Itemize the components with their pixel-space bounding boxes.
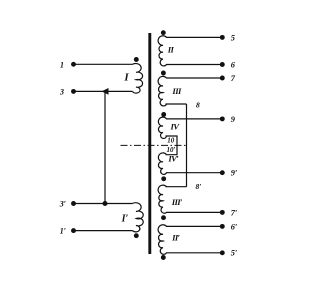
svg-text:9′: 9′ [231,169,238,178]
terminal 3 dot [71,89,76,94]
svg-text:3: 3 [59,87,64,96]
transformer core [148,33,151,254]
svg-text:3′: 3′ [59,199,66,208]
junction arrow on wire 3 [102,88,109,95]
winding IV [158,117,222,138]
svg-text:10: 10 [167,137,175,145]
winding III polarity dot [161,71,166,76]
winding I polarity dot [134,57,139,62]
svg-text:I: I [123,72,129,84]
winding II [158,36,222,66]
winding IV' [158,153,222,175]
svg-text:7′: 7′ [231,208,238,217]
terminal 6 dot [220,62,225,67]
wire terminal3' to winding I' [74,203,133,205]
wire terminal1' to winding I' [74,230,133,232]
terminal 6' dot [220,224,225,229]
terminal 9' dot [220,170,225,175]
svg-text:8′: 8′ [196,182,202,191]
svg-text:II′: II′ [171,232,181,242]
terminal 5 dot [220,35,225,40]
terminal 9 dot [220,116,225,121]
svg-text:IV′: IV′ [167,153,179,163]
winding I' polarity dot [134,233,139,238]
svg-text:1′: 1′ [60,227,66,236]
terminal 1' dot [71,228,76,233]
svg-text:5′: 5′ [231,249,238,258]
svg-text:III: III [171,86,182,96]
winding I' [133,203,144,232]
svg-text:8: 8 [196,101,200,110]
terminal 5' dot [220,250,225,255]
link wire node3 to node3' [104,91,106,203]
svg-text:I′: I′ [121,214,129,225]
svg-text:1: 1 [60,60,64,69]
wire node 8' to bus [166,186,187,188]
wire node 8 to bus [166,103,187,105]
winding II' [158,225,222,255]
svg-text:6′: 6′ [231,222,238,231]
jog wire 10 to 10' [166,136,178,155]
winding III' polarity dot [161,215,166,220]
winding III [158,76,222,106]
junction dot on wire 3' [103,201,108,206]
winding II polarity dot [161,30,166,35]
svg-text:5: 5 [231,33,235,42]
terminal 7 dot [220,76,225,81]
wire terminal1 to winding I [74,63,133,65]
winding II' polarity dot [161,255,166,260]
terminal 3' dot [71,201,76,206]
winding III' [158,185,222,213]
winding IV polarity dot [161,112,166,117]
winding IV' polarity dot [161,176,166,181]
winding I [133,64,143,94]
terminal 1 dot [71,62,76,67]
wire terminal3 to winding I [74,90,133,92]
terminal 7' dot [220,210,225,215]
svg-text:III′: III′ [171,197,183,207]
centerline (dash-dot) [121,144,189,146]
bus 8 to 8' [186,104,188,187]
